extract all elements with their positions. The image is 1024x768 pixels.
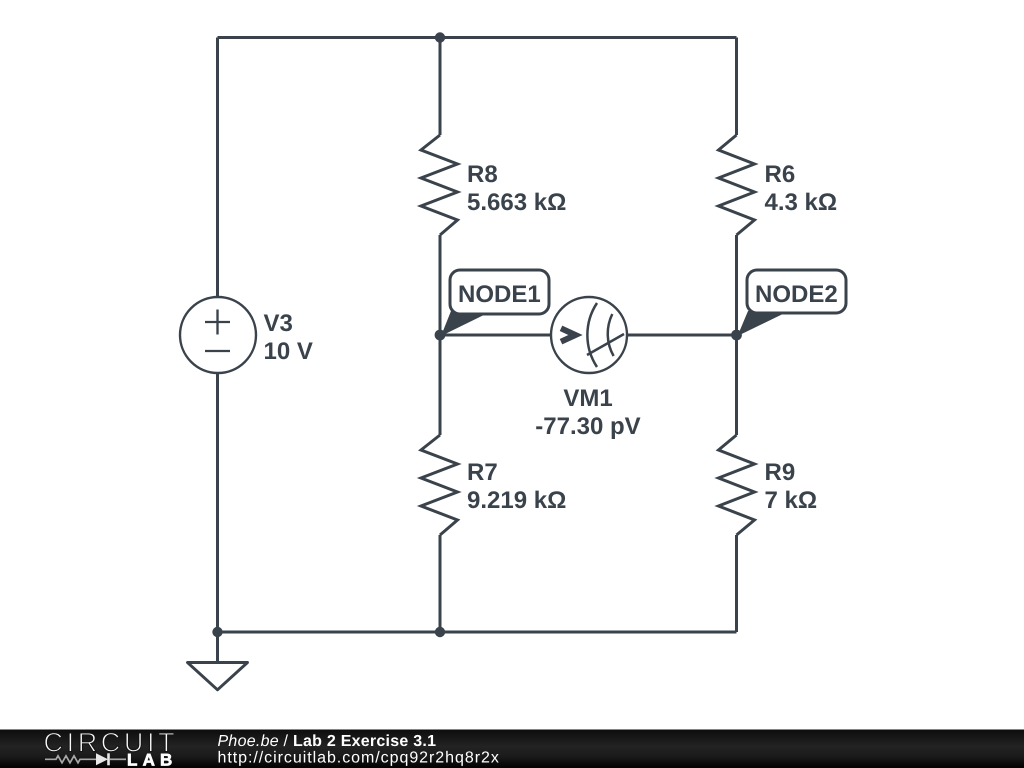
node NODE1 flag	[441, 270, 549, 336]
wire NODE2 to R9	[735, 335, 738, 435]
CircuitLab logo wordmark CIRCUIT	[44, 728, 179, 758]
label R8 value	[467, 161, 566, 216]
footer bar	[0, 730, 1024, 768]
wire middle rail (NODE1 to R7)	[439, 335, 442, 435]
label R9 value	[765, 459, 818, 514]
label R6 value	[765, 161, 838, 216]
resistor R7	[421, 435, 458, 535]
wire left rail lower (V3 to bottom rail)	[216, 373, 219, 632]
svg-text:10 V: 10 V	[264, 338, 313, 365]
wire bottom rail	[218, 631, 737, 634]
junction dot NODE2	[731, 330, 742, 341]
svg-text:R6: R6	[765, 161, 796, 188]
wire middle rail upper (top rail to R8)	[439, 38, 442, 136]
node NODE2 flag	[738, 270, 847, 336]
svg-text:7 kΩ: 7 kΩ	[765, 487, 818, 514]
wire left rail upper (top rail to V3)	[216, 38, 219, 298]
wire R9 to bottom rail	[735, 535, 738, 632]
CircuitLab logo wordmark LAB	[127, 750, 178, 768]
ground	[188, 632, 248, 690]
resistor R6	[719, 135, 755, 235]
footer url line	[218, 750, 500, 767]
label R7 value	[467, 459, 566, 514]
svg-text:NODE1: NODE1	[458, 281, 541, 308]
svg-text:-77.30 pV: -77.30 pV	[535, 413, 640, 440]
CircuitLab logo diode	[96, 753, 126, 765]
wire top rail	[218, 36, 737, 39]
wire NODE1 to voltmeter	[440, 334, 551, 337]
label VM1 value	[535, 385, 640, 440]
svg-text:R7: R7	[467, 459, 498, 486]
svg-text:R9: R9	[765, 459, 796, 486]
footer attribution line	[218, 733, 437, 750]
label V3 value	[264, 310, 313, 365]
wire right rail upper (top rail to R6)	[735, 38, 738, 136]
voltmeter VM1	[551, 297, 627, 373]
svg-text:VM1: VM1	[563, 385, 612, 412]
svg-text:NODE2: NODE2	[755, 281, 838, 308]
junction dot top middle	[435, 32, 445, 42]
svg-text:LAB: LAB	[127, 750, 178, 768]
svg-text:http://circuitlab.com/cpq92r2h: http://circuitlab.com/cpq92r2hq8r2x	[218, 750, 500, 767]
CircuitLab logo resistor	[45, 756, 96, 763]
svg-text:Phoe.be / Lab 2 Exercise 3.1: Phoe.be / Lab 2 Exercise 3.1	[218, 733, 437, 750]
svg-text:9.219 kΩ: 9.219 kΩ	[467, 487, 566, 514]
wire R6 to NODE2	[735, 235, 738, 335]
junction dot bottom-left	[212, 627, 222, 637]
junction dot bottom middle	[435, 627, 445, 637]
svg-text:4.3 kΩ: 4.3 kΩ	[765, 189, 838, 216]
junction dot NODE1	[435, 330, 446, 341]
resistor R9	[719, 435, 755, 535]
wire voltmeter to NODE2	[627, 334, 737, 337]
resistor R8	[421, 135, 458, 235]
wire R7 to bottom rail	[439, 535, 442, 632]
wire R8 to NODE1	[439, 235, 442, 335]
voltage source V3	[180, 297, 256, 373]
svg-text:V3: V3	[264, 310, 293, 337]
svg-text:5.663 kΩ: 5.663 kΩ	[467, 189, 566, 216]
svg-text:R8: R8	[467, 161, 498, 188]
